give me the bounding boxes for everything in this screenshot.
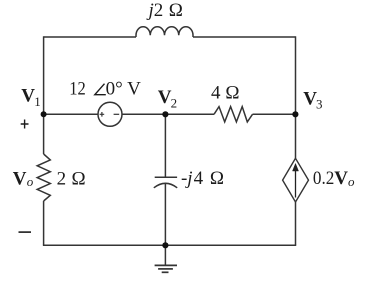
label 0.2Vo <box>313 168 355 189</box>
wire left vertical lower <box>43 201 45 245</box>
wire node V1 to source <box>44 113 98 115</box>
svg-text:2: 2 <box>154 0 164 21</box>
plus polarity mark <box>21 120 29 129</box>
label Vo <box>13 168 34 189</box>
wire left vertical upper <box>43 36 45 154</box>
voltage source VS 12 angle 0 V <box>98 102 122 126</box>
label -j4 ohm <box>181 168 224 189</box>
capacitor C -j4 ohm curved plate <box>154 183 177 188</box>
label 12 angle 0 V <box>69 79 141 100</box>
wire top-right horizontal <box>193 36 296 38</box>
svg-text:4: 4 <box>211 83 221 104</box>
svg-text:1: 1 <box>34 94 41 109</box>
inductor L1 j2 ohm <box>136 27 193 37</box>
label V3 <box>303 88 322 111</box>
svg-text:Ω: Ω <box>169 0 183 21</box>
arrow inside dependent source <box>293 164 299 198</box>
resistor R 2 ohm vertical <box>37 154 50 201</box>
wire bottom horizontal <box>43 244 296 246</box>
svg-text:Ω: Ω <box>210 168 224 189</box>
svg-text:2: 2 <box>57 169 67 190</box>
svg-text:2: 2 <box>171 95 178 110</box>
svg-text:12: 12 <box>69 79 86 100</box>
svg-text:4: 4 <box>194 168 204 189</box>
svg-text:V: V <box>21 86 35 107</box>
wire right vertical lower <box>295 202 297 245</box>
label j2 ohm <box>146 0 183 21</box>
svg-text:3: 3 <box>316 97 323 112</box>
angle symbol of source label <box>95 84 106 95</box>
resistor R 4 ohm <box>214 107 253 122</box>
svg-text:0.2: 0.2 <box>313 168 334 189</box>
svg-text:j: j <box>146 0 154 21</box>
svg-text:Ω: Ω <box>72 169 86 190</box>
ground node junction dot <box>162 242 168 248</box>
label V2 <box>158 87 177 110</box>
wire right vertical upper <box>295 36 297 158</box>
wire top-left horizontal <box>44 36 136 38</box>
svg-text:o: o <box>348 174 355 189</box>
dependent source diamond 0.2Vo <box>283 158 309 202</box>
svg-text:Ω: Ω <box>225 83 239 104</box>
label V1 <box>21 86 40 109</box>
svg-text:V: V <box>158 87 172 108</box>
ground stub <box>164 245 166 265</box>
minus polarity mark <box>19 231 32 233</box>
svg-text:0° V: 0° V <box>106 79 142 100</box>
wire capacitor to bottom node <box>164 184 166 246</box>
node V3 junction dot <box>292 111 298 117</box>
svg-text:o: o <box>27 174 34 189</box>
minus sign inside source <box>114 113 120 115</box>
svg-text:V: V <box>13 168 27 189</box>
node V1 junction dot <box>41 111 47 117</box>
wire source to node V2 <box>122 113 214 115</box>
wire resistor to node V3 <box>253 113 296 115</box>
ground symbol <box>155 265 177 272</box>
svg-text:V: V <box>334 168 348 189</box>
node V2 junction dot <box>162 111 168 117</box>
plus sign inside source <box>100 112 105 117</box>
wire V2 down to capacitor <box>164 114 166 177</box>
capacitor C -j4 ohm top plate <box>155 176 177 178</box>
